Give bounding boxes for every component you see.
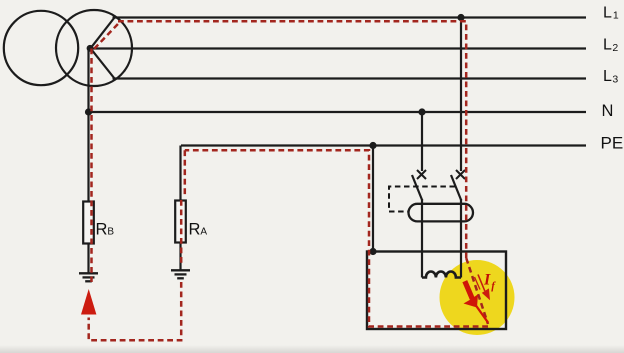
wire: L1 pole to load (460, 199, 462, 278)
breaker contact cross L1 pole (456, 170, 465, 179)
fault lightning bolt (465, 281, 473, 299)
dashed: star point down through RB (90, 49, 93, 283)
transformer secondary winding circle (56, 10, 132, 86)
wire: star point down to RB (87, 49, 89, 202)
secondary star-point radial to L3 (91, 48, 115, 78)
svg-text:N: N (602, 102, 614, 120)
fault current arrow If (478, 275, 485, 292)
RCD toroid sensor (409, 204, 474, 222)
node: N tap junction (418, 108, 425, 115)
dashed: inside appliance bottom and frame up to PE (185, 150, 488, 326)
transformer primary winding circle (4, 11, 78, 85)
resistor RA body (175, 201, 186, 243)
node: N to earthing conductor junction (85, 108, 92, 115)
node: PE at appliance frame (369, 248, 376, 255)
breaker contact cross N pole (417, 170, 426, 179)
fault zone yellow circle (440, 260, 515, 335)
line L2 (91, 47, 587, 49)
star point junction (87, 45, 94, 52)
node: PE tap junction (369, 142, 376, 149)
node: L1 tap junction (457, 14, 464, 21)
wire: L1 down to breaker (460, 18, 462, 172)
resistor RB body (83, 202, 94, 244)
earth current arrow (81, 289, 96, 315)
breaker blade L1 pole (451, 175, 461, 201)
line PE (181, 144, 586, 146)
line N (89, 111, 587, 113)
appliance enclosure box (367, 252, 506, 330)
wire: N down to breaker (421, 112, 423, 171)
line L3 (113, 77, 587, 79)
wire: N pole to load (421, 199, 423, 278)
wire: RA to ground (179, 243, 181, 271)
load winding coil (422, 272, 461, 278)
dashed: fault arc inside appliance (466, 258, 488, 324)
dashed: through RA resistor (180, 200, 183, 266)
line L1 (113, 16, 587, 18)
wire: PE down to appliance frame (372, 146, 374, 252)
dashed: through earth RA to RB (89, 282, 182, 340)
breaker blade N pole (412, 175, 422, 201)
fault current path (red dashed): star point to L1 (89, 21, 488, 340)
RCD trip linkage (dashed) (389, 187, 455, 212)
ground (source earth) (79, 273, 98, 281)
wire: RB to ground (87, 244, 89, 274)
wire: PE down to RA (179, 146, 181, 201)
secondary star-point radial to L1 (91, 18, 115, 49)
dashed: along L1 and down service drop (118, 21, 466, 258)
dashed: transformer radial to L1 (94, 22, 119, 49)
dashed: down PE electrode RA (184, 150, 187, 197)
ground (installation earth RA) (171, 270, 190, 278)
svg-text:PE: PE (601, 133, 624, 152)
